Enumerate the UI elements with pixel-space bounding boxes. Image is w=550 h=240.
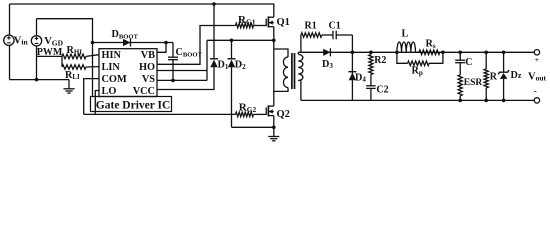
svg-text:C2: C2 (376, 85, 388, 96)
svg-text:LO: LO (102, 86, 117, 97)
svg-text:C1: C1 (329, 20, 341, 31)
svg-text:VS: VS (142, 74, 155, 85)
svg-text:R2: R2 (374, 55, 386, 66)
svg-text:VCC: VCC (133, 86, 155, 97)
svg-text:L: L (402, 28, 409, 39)
svg-text:LIN: LIN (102, 62, 121, 73)
svg-text:R: R (490, 71, 498, 82)
svg-text:VB: VB (141, 50, 155, 61)
svg-text:Q1: Q1 (277, 17, 290, 28)
svg-text:Dz: Dz (511, 70, 522, 81)
svg-text:Vout: Vout (528, 71, 547, 82)
svg-text:R1: R1 (305, 20, 317, 31)
svg-text:C: C (465, 57, 472, 68)
svg-text:HO: HO (139, 62, 155, 73)
svg-text:ESR: ESR (464, 78, 483, 88)
svg-text:Vin: Vin (14, 35, 29, 46)
svg-text:+: + (535, 55, 539, 64)
svg-text:-: - (534, 86, 537, 96)
svg-text:Q2: Q2 (277, 109, 290, 120)
svg-text:Gate Driver IC: Gate Driver IC (96, 99, 171, 111)
svg-text:COM: COM (102, 74, 127, 85)
svg-text:HIN: HIN (102, 50, 122, 61)
svg-text:VGD: VGD (44, 36, 63, 47)
